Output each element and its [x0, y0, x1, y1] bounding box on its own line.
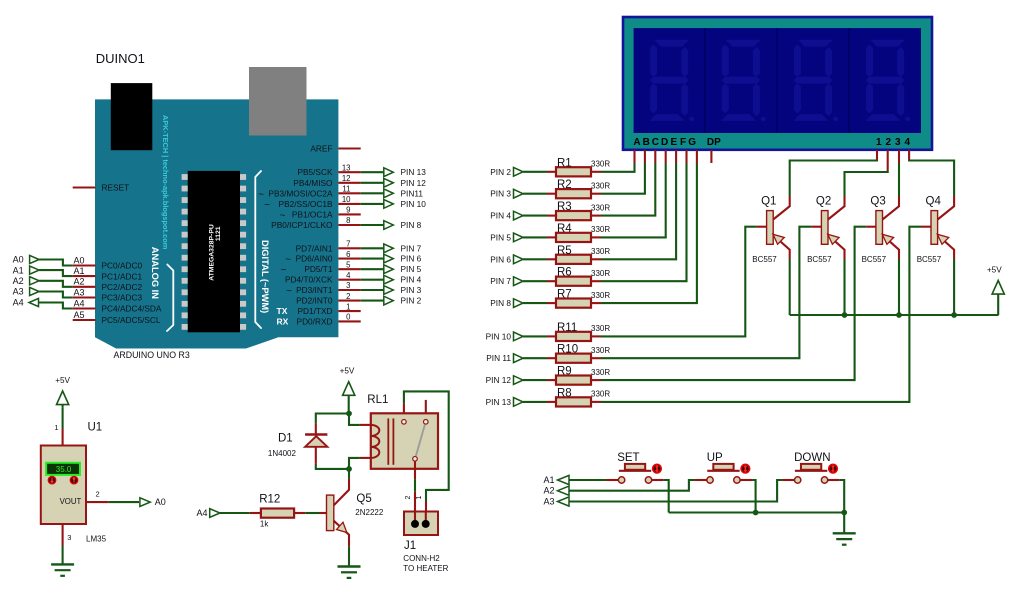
wire relay NO to J1 pin 1	[404, 391, 449, 502]
wire +5V to relay coil top	[349, 414, 360, 425]
wire UP to rail	[752, 480, 756, 513]
svg-text:PD0/RXD: PD0/RXD	[297, 316, 333, 326]
svg-text:RX: RX	[277, 316, 289, 326]
svg-text:PC3/ADC3: PC3/ADC3	[102, 293, 143, 303]
svg-text:1: 1	[876, 137, 882, 148]
power +5V arrow	[57, 391, 69, 405]
resistor R12 (1k)	[261, 509, 294, 518]
wire to terminal PIN 4	[361, 279, 385, 281]
svg-text:PIN 10: PIN 10	[401, 199, 427, 209]
svg-text:PB0/ICP1/CLKO: PB0/ICP1/CLKO	[271, 220, 333, 230]
svg-text:7: 7	[346, 240, 350, 249]
wire +5V to D1 cathode	[316, 414, 349, 424]
svg-text:A3: A3	[13, 287, 24, 297]
resistor R3 (330R)	[556, 211, 591, 220]
relay core	[387, 418, 389, 464]
svg-text:R10: R10	[557, 344, 578, 356]
svg-text:TX: TX	[277, 306, 288, 316]
svg-text:DOWN: DOWN	[794, 452, 830, 464]
svg-text:A3: A3	[73, 287, 84, 297]
wire display pin 3 to Q3 collector	[898, 163, 900, 196]
digit divider	[704, 28, 706, 133]
svg-text:R4: R4	[557, 223, 572, 235]
svg-text:330R: 330R	[591, 346, 610, 355]
svg-text:PIN 8: PIN 8	[401, 220, 422, 230]
button DOWN contacts	[782, 479, 795, 481]
svg-text:~: ~	[258, 189, 264, 200]
pin 12 PB4/MISO	[338, 182, 360, 184]
wire A4 to R12	[220, 512, 250, 514]
ground (U1)	[51, 563, 74, 565]
pin PC1/ADC1	[73, 275, 96, 277]
svg-text:A0: A0	[155, 497, 166, 507]
svg-text:SET: SET	[617, 452, 639, 464]
wire to terminal PIN 8	[361, 224, 385, 226]
wire display pin 2 to Q2 collector	[845, 171, 888, 197]
svg-text:A2: A2	[73, 277, 84, 287]
svg-text:Q1: Q1	[761, 196, 776, 208]
pin RESET	[73, 186, 96, 188]
svg-text:PIN 10: PIN 10	[486, 331, 512, 341]
digit divider	[848, 28, 850, 133]
svg-text:Q5: Q5	[356, 493, 371, 505]
pin 4 PD4/T0/XCK	[338, 279, 360, 281]
wire VOUT to A0	[109, 501, 139, 503]
junction DOWN/rail	[841, 510, 847, 516]
relay contact NO	[402, 420, 407, 425]
pin 5 PD5/T1	[338, 268, 360, 270]
transistor Q4 BC557 (PNP)	[931, 211, 938, 245]
pin 10 PB2/SS/OC1B	[338, 203, 360, 205]
svg-text:U1: U1	[88, 421, 103, 433]
resistor R2 (330R)	[556, 189, 591, 198]
pin 13 PB5/SCK	[338, 171, 360, 173]
diode D1 1N4002	[315, 423, 317, 434]
svg-text:TO HEATER: TO HEATER	[403, 564, 448, 573]
svg-text:PIN 11: PIN 11	[486, 353, 511, 363]
wire PIN 3 to R2	[523, 193, 547, 195]
wire R7 to display	[591, 302, 601, 304]
pin 2 PD2/INT0	[338, 300, 360, 302]
svg-text:~: ~	[286, 286, 292, 297]
wire R3 to display	[591, 215, 601, 217]
svg-text:10: 10	[342, 195, 351, 204]
svg-text:PB3/MOSI/OC2A: PB3/MOSI/OC2A	[268, 188, 333, 198]
display pin B	[644, 150, 646, 163]
svg-text:PIN 5: PIN 5	[401, 264, 422, 274]
svg-text:330R: 330R	[591, 291, 610, 300]
svg-text:LM35: LM35	[86, 535, 107, 544]
svg-text:PD1/TXD: PD1/TXD	[297, 306, 332, 316]
svg-text:6: 6	[346, 250, 350, 259]
svg-text:PIN 12: PIN 12	[486, 375, 512, 385]
svg-text:A: A	[633, 137, 640, 148]
svg-text:R8: R8	[557, 387, 572, 399]
svg-text:+5V: +5V	[987, 266, 1002, 275]
svg-text:330R: 330R	[591, 181, 610, 190]
svg-text:PIN11: PIN11	[401, 188, 424, 198]
pin 1 U1	[62, 429, 64, 446]
pin 11 PB3/MOSI/OC2A	[338, 192, 360, 194]
wire +5V emitter rail	[789, 259, 791, 315]
ground (buttons)	[833, 532, 856, 534]
junction Q3 emitter	[896, 312, 902, 318]
sensor U1 LM35	[41, 446, 86, 525]
display pin D	[665, 150, 667, 163]
svg-text:A4: A4	[196, 508, 207, 518]
wire R5 to display	[591, 258, 601, 260]
svg-text:PIN 12: PIN 12	[401, 178, 427, 188]
wire to terminal PIN 12	[361, 182, 385, 184]
svg-text:VOUT: VOUT	[60, 497, 82, 506]
svg-text:35.0: 35.0	[56, 465, 72, 474]
svg-text:PIN 6: PIN 6	[401, 254, 422, 264]
svg-text:PC5/ADC5/SCL: PC5/ADC5/SCL	[102, 315, 161, 325]
svg-text:D1: D1	[278, 433, 293, 445]
pin PC0/ADC0	[73, 264, 96, 266]
relay coil	[371, 425, 380, 458]
svg-text:PD6/AIN0: PD6/AIN0	[296, 254, 333, 264]
svg-text:PIN 6: PIN 6	[490, 254, 511, 264]
wire to terminal PIN 13	[361, 171, 385, 173]
button DOWN indicator	[828, 464, 838, 474]
usb connector (grey)	[249, 67, 307, 136]
terminal PIN 8	[384, 221, 394, 230]
relay lever	[416, 425, 425, 457]
7-seg digit 4	[870, 40, 905, 47]
svg-text:BC557: BC557	[752, 255, 777, 264]
svg-text:ANALOG IN: ANALOG IN	[150, 247, 160, 299]
svg-text:DUINO1: DUINO1	[96, 51, 145, 66]
wire R11 to transistor base	[591, 335, 601, 337]
svg-text:330R: 330R	[591, 247, 610, 256]
svg-text:330R: 330R	[591, 390, 610, 399]
display pin 1	[876, 150, 878, 160]
display pin G	[696, 150, 698, 163]
svg-text:G: G	[688, 137, 696, 148]
wire A3 to pin	[39, 292, 73, 298]
svg-text:A4: A4	[73, 298, 84, 308]
terminal PIN 3	[384, 286, 394, 295]
arduino board DUINO1	[95, 99, 338, 348]
svg-text:2: 2	[346, 292, 350, 301]
svg-text:DP: DP	[707, 137, 721, 148]
wire display pin 1 to Q1 collector	[790, 160, 877, 197]
pin 3 U1	[62, 524, 64, 546]
wire +5V stem	[62, 405, 64, 408]
svg-text:A1: A1	[73, 266, 84, 276]
IC ATMEGA328P-PU	[188, 171, 240, 332]
resistor R4 (330R)	[556, 233, 591, 242]
wire PIN 4 to R3	[523, 215, 547, 217]
display pin DP	[710, 150, 712, 163]
svg-text:BC557: BC557	[917, 255, 942, 264]
LM35 down button	[48, 476, 57, 485]
svg-text:2N2222: 2N2222	[355, 508, 384, 517]
power +5V arrow	[992, 281, 1004, 295]
terminal PIN 10	[384, 200, 394, 209]
svg-text:A2: A2	[543, 486, 554, 496]
pin 0 PD0/RXD	[338, 320, 360, 322]
wire R6 to display	[591, 280, 601, 282]
pin 3 PD3/INT1	[338, 289, 360, 291]
pin 1 PD1/TXD	[338, 310, 360, 312]
LM35 up button	[70, 476, 79, 485]
wire relay common to J1 pin 2	[414, 479, 416, 492]
wire U1 pin3 to ground	[62, 546, 64, 565]
wire to terminal PIN 10	[361, 203, 385, 205]
svg-text:8: 8	[346, 216, 350, 225]
svg-text:E: E	[670, 137, 677, 148]
terminal PIN 13	[384, 168, 394, 177]
digit divider	[776, 28, 778, 133]
svg-text:1k: 1k	[260, 520, 269, 529]
svg-text:PIN 3: PIN 3	[401, 285, 422, 295]
svg-text:Q2: Q2	[816, 196, 831, 208]
svg-text:F: F	[680, 137, 686, 148]
svg-text:4: 4	[905, 137, 911, 148]
svg-text:PD2/INT0: PD2/INT0	[296, 296, 333, 306]
power +5V arrow	[343, 382, 355, 396]
svg-text:PC2/ADC2: PC2/ADC2	[102, 282, 143, 292]
7-seg digit 1	[654, 40, 689, 47]
svg-text:+5V: +5V	[340, 367, 355, 376]
pin AREF	[338, 147, 360, 149]
svg-text:PB2/SS/OC1B: PB2/SS/OC1B	[279, 199, 333, 209]
pin 8 PB0/ICP1/CLKO	[338, 224, 360, 226]
svg-text:330R: 330R	[591, 269, 610, 278]
resistor R7 (330R)	[556, 299, 591, 308]
terminal PIN 4	[384, 275, 394, 284]
button UP contacts	[694, 479, 707, 481]
wire +5V stem	[997, 294, 999, 315]
svg-text:9: 9	[346, 206, 350, 215]
wire A0 to pin	[39, 260, 73, 266]
relay contact NC	[424, 420, 429, 425]
wire PIN 8 to R7	[523, 302, 547, 304]
svg-text:R5: R5	[557, 245, 572, 257]
svg-text:2: 2	[886, 137, 892, 148]
7-seg digit 2	[726, 40, 761, 47]
junction Q4 emitter	[951, 312, 957, 318]
terminal A0	[140, 498, 150, 507]
wire PIN 7 to R6	[523, 280, 547, 282]
relay pin NC	[425, 400, 427, 413]
display pin 3	[898, 150, 900, 163]
svg-text:PC0/ADC0: PC0/ADC0	[102, 261, 143, 271]
display pin 2	[887, 150, 889, 171]
svg-text:Q4: Q4	[926, 196, 942, 208]
svg-text:PC1/ADC1: PC1/ADC1	[102, 271, 143, 281]
wire to terminal PIN 5	[361, 268, 385, 270]
svg-text:+5V: +5V	[55, 376, 70, 385]
svg-text:R3: R3	[557, 201, 572, 213]
button SET contacts	[606, 479, 619, 481]
terminal PIN11	[384, 189, 394, 198]
wire R4 to display	[591, 236, 601, 238]
terminal PIN 6	[384, 254, 394, 263]
svg-text:ARDUINO UNO R3: ARDUINO UNO R3	[114, 350, 190, 360]
pin PC3/ADC3	[73, 296, 96, 298]
svg-text:A4: A4	[13, 298, 24, 308]
svg-text:UP: UP	[707, 452, 723, 464]
svg-text:330R: 330R	[591, 368, 610, 377]
4-digit 7-segment display	[623, 17, 932, 150]
button UP indicator	[740, 464, 750, 474]
svg-text:330R: 330R	[591, 324, 610, 333]
junction UP/rail	[753, 510, 759, 516]
ground rail	[669, 511, 845, 513]
svg-text:11: 11	[342, 185, 350, 194]
resistor R11 (330R)	[556, 332, 591, 341]
svg-text:3: 3	[67, 533, 71, 542]
svg-text:330R: 330R	[591, 225, 610, 234]
relay common contact	[413, 457, 418, 462]
transistor Q3 BC557 (PNP)	[876, 211, 883, 245]
ground (Q5)	[338, 565, 361, 567]
svg-text:4: 4	[346, 271, 351, 280]
svg-text:AREF: AREF	[310, 144, 332, 154]
display pin E	[675, 150, 677, 163]
display inner panel	[634, 28, 921, 133]
svg-text:RESET: RESET	[102, 183, 130, 193]
analog brace	[167, 265, 173, 332]
svg-text:PIN 2: PIN 2	[401, 296, 422, 306]
svg-text:1: 1	[54, 423, 58, 432]
wire relay coil bottom to Q5 collector	[360, 457, 371, 459]
wire A3 to DOWN	[569, 480, 782, 502]
digital brace	[255, 171, 261, 328]
wire R10 to transistor base	[591, 357, 601, 359]
pin 9 PB1/OC1A	[338, 213, 360, 215]
wire rail to ground	[843, 513, 845, 534]
svg-text:PIN 7: PIN 7	[401, 243, 422, 253]
resistor R9 (330R)	[556, 376, 591, 385]
transistor Q1 BC557 (PNP)	[767, 211, 774, 245]
button SET indicator	[652, 464, 662, 474]
connector J1 CONN-H2	[404, 512, 438, 536]
display pin A	[633, 150, 635, 163]
wire A1 to SET	[569, 479, 606, 481]
wire R2 to display	[591, 193, 601, 195]
wire to terminal PIN 2	[361, 300, 385, 302]
pin PC2/ADC2	[73, 286, 96, 288]
svg-text:R2: R2	[557, 179, 572, 191]
svg-text:1: 1	[416, 496, 423, 500]
wire PIN 5 to R4	[523, 236, 547, 238]
svg-text:2: 2	[96, 489, 100, 498]
svg-text:R6: R6	[557, 267, 572, 279]
svg-text:BC557: BC557	[862, 255, 887, 264]
svg-text:B: B	[643, 137, 650, 148]
wire D1 anode to Q5 collector node	[316, 464, 349, 469]
svg-text:13: 13	[342, 163, 351, 172]
svg-text:R1: R1	[557, 157, 572, 169]
transistor Q2 BC557 (PNP)	[821, 211, 828, 245]
svg-text:12: 12	[342, 174, 351, 183]
display pin C	[654, 150, 656, 163]
wire PIN 2 to R1	[523, 171, 547, 173]
wire R8 to transistor base	[591, 401, 601, 403]
resistor R1 (330R)	[556, 167, 591, 176]
svg-text:~: ~	[264, 200, 270, 211]
svg-text:PD7/AIN1: PD7/AIN1	[296, 243, 333, 253]
pin PC5/ADC5/SCL	[73, 319, 96, 321]
terminal PIN 2	[384, 296, 394, 305]
wire R12 to Q5 base	[294, 512, 305, 514]
resistor R5 (330R)	[556, 255, 591, 264]
terminal PIN 7	[384, 244, 394, 253]
wire A2 to UP	[569, 480, 694, 491]
wire to terminal PIN 3	[361, 289, 385, 291]
wire SET to rail	[664, 480, 669, 513]
svg-text:A1: A1	[13, 265, 24, 275]
svg-text:PIN 13: PIN 13	[486, 397, 512, 407]
svg-text:R12: R12	[259, 494, 280, 506]
svg-text:PC4/ADC4/SDA: PC4/ADC4/SDA	[102, 304, 162, 314]
wire display pin 4 to Q4 collector	[909, 160, 954, 197]
pin PC4/ADC4/SDA	[73, 307, 96, 309]
svg-text:PIN 4: PIN 4	[401, 275, 422, 285]
svg-text:PIN 7: PIN 7	[490, 276, 511, 286]
wire to terminal PIN11	[361, 192, 385, 194]
svg-text:A2: A2	[13, 276, 24, 286]
resistor R6 (330R)	[556, 277, 591, 286]
svg-text:R7: R7	[557, 289, 572, 301]
svg-text:A5: A5	[73, 310, 84, 320]
svg-text:DIGITAL (~PWM): DIGITAL (~PWM)	[260, 240, 270, 313]
wire +5V stem	[348, 395, 350, 413]
svg-text:3: 3	[346, 281, 350, 290]
wire PIN 12 to R9	[523, 379, 547, 381]
relay common pin	[414, 461, 416, 479]
wire R9 to transistor base	[591, 379, 601, 381]
svg-text:2: 2	[405, 496, 412, 500]
svg-text:PB1/OC1A: PB1/OC1A	[292, 209, 333, 219]
display pin F	[685, 150, 687, 163]
junction Q2 emitter	[842, 312, 848, 318]
svg-text:PD4/T0/XCK: PD4/T0/XCK	[285, 275, 333, 285]
svg-text:PIN 2: PIN 2	[490, 167, 511, 177]
svg-text:J1: J1	[404, 540, 416, 552]
svg-text:1: 1	[346, 302, 350, 311]
resistor R8 (330R)	[556, 397, 591, 406]
svg-text:1121: 1121	[215, 226, 222, 241]
7-seg digit 3	[798, 40, 833, 47]
pin 6 PD6/AIN0	[338, 258, 360, 260]
svg-text:PIN 4: PIN 4	[490, 211, 511, 221]
usb power jack (black)	[111, 83, 153, 150]
wire to terminal PIN 7	[361, 247, 385, 249]
svg-text:PB4/MISO: PB4/MISO	[293, 178, 333, 188]
svg-text:1N4002: 1N4002	[268, 449, 297, 458]
wire PIN 13 to R8	[523, 401, 547, 403]
svg-text:PIN 13: PIN 13	[401, 167, 427, 177]
svg-text:D: D	[661, 137, 668, 148]
svg-text:PD3/INT1: PD3/INT1	[296, 285, 333, 295]
wire A1 to pin	[39, 270, 73, 276]
wire R1 to display	[591, 171, 601, 173]
wire A4 to pin	[39, 303, 73, 309]
svg-text:A0: A0	[13, 255, 24, 265]
svg-text:PIN 5: PIN 5	[490, 232, 511, 242]
wire DOWN to rail	[840, 480, 845, 513]
svg-text:~: ~	[285, 255, 291, 266]
wire to terminal PIN 6	[361, 258, 385, 260]
svg-text:BC557: BC557	[807, 255, 832, 264]
svg-text:A0: A0	[73, 255, 84, 265]
svg-text:5: 5	[346, 260, 351, 269]
